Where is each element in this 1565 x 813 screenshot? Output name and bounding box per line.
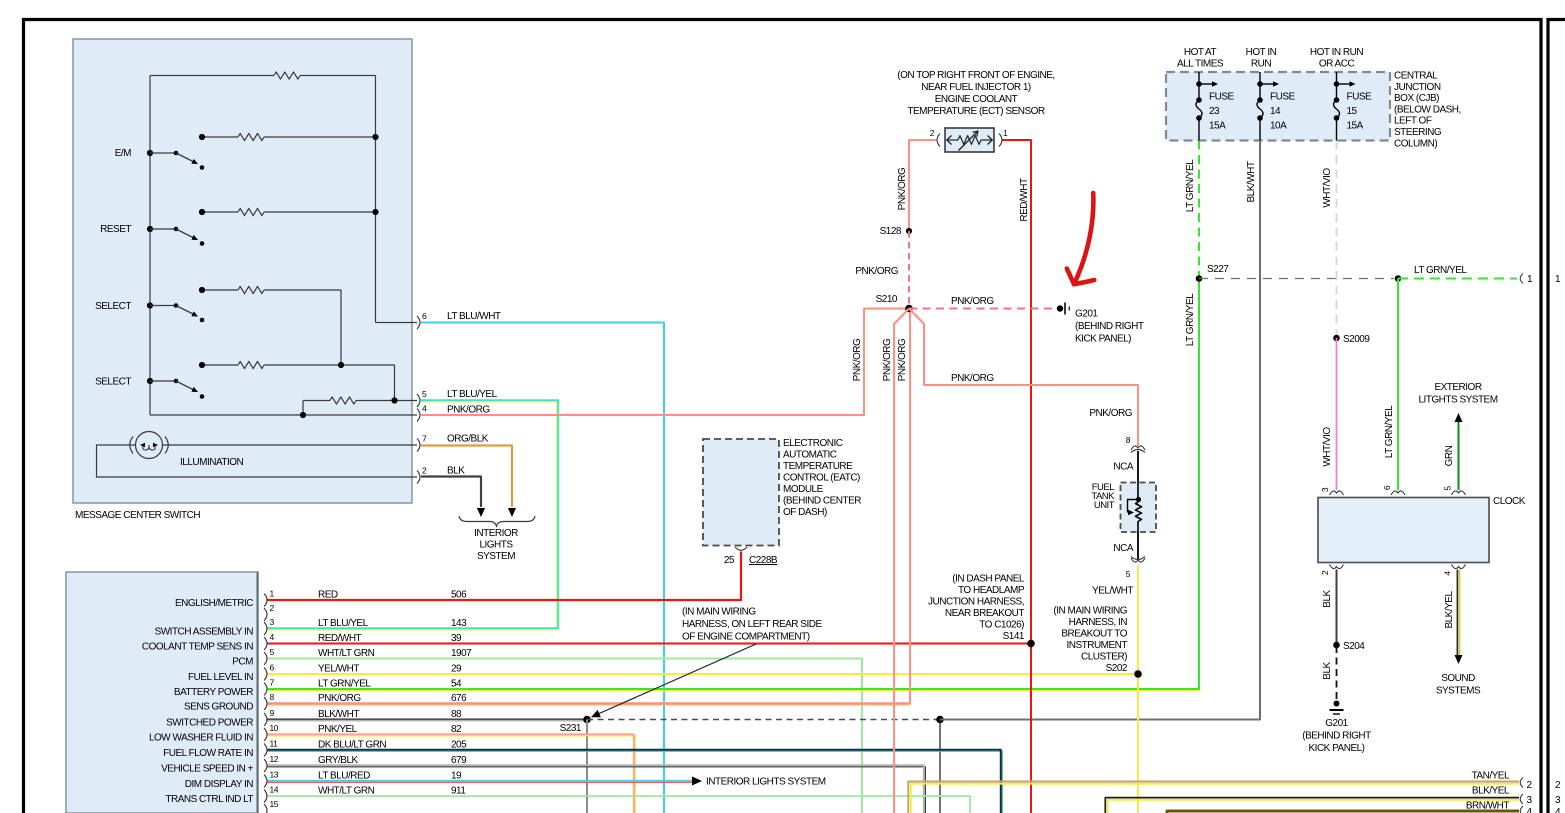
svg-text:PNK/ORG: PNK/ORG xyxy=(951,373,994,384)
svg-text:(BEHIND CENTER: (BEHIND CENTER xyxy=(783,496,861,507)
label PNK/ORG (pin4) xyxy=(447,405,490,416)
svg-text:PNK/ORG: PNK/ORG xyxy=(897,167,908,210)
svg-text:911: 911 xyxy=(451,786,466,797)
label PNK/ORG (left of dashed) xyxy=(855,266,898,277)
wire BLK/YEL clock pin4 to sound systems xyxy=(1455,570,1463,665)
svg-text:RED: RED xyxy=(318,590,338,601)
svg-text:SWITCHED POWER: SWITCHED POWER xyxy=(166,718,253,729)
svg-text:6: 6 xyxy=(270,663,275,673)
label BLK (vertical, lower) xyxy=(1322,661,1333,679)
svg-text:13: 13 xyxy=(270,770,279,780)
svg-text:E/M: E/M xyxy=(115,148,131,159)
wire BLK/WHT junction to fuse 14 xyxy=(940,141,1260,720)
svg-text:LT GRN/YEL: LT GRN/YEL xyxy=(1384,405,1395,458)
svg-text:OF DASH): OF DASH) xyxy=(783,507,827,518)
svg-text:TAN/YEL: TAN/YEL xyxy=(1472,771,1510,782)
label RED/WHT (vertical) xyxy=(1019,178,1030,222)
svg-text:15: 15 xyxy=(1347,106,1358,117)
svg-text:7: 7 xyxy=(270,678,275,688)
label LT GRN/YEL (vertical, lower) xyxy=(1185,293,1196,346)
svg-text:1: 1 xyxy=(270,589,275,599)
label LT GRN/YEL (horizontal) xyxy=(1414,265,1467,276)
label EATC module xyxy=(783,438,861,518)
pin 2 clock xyxy=(1320,565,1344,576)
label pin 4 adjacent sheet xyxy=(1555,807,1561,813)
svg-text:7: 7 xyxy=(422,434,427,444)
svg-text:BLK/WHT: BLK/WHT xyxy=(1246,161,1257,202)
svg-text:3: 3 xyxy=(1320,487,1330,492)
wire YEL/WHT 29 pin6 to S202 xyxy=(268,673,1139,675)
fuse 14 (10A) xyxy=(1257,72,1296,141)
svg-text:G201: G201 xyxy=(1075,309,1098,320)
svg-text:COOLANT TEMP SENS IN: COOLANT TEMP SENS IN xyxy=(142,642,253,653)
splice S204 xyxy=(1333,641,1365,652)
svg-text:DIM DISPLAY IN: DIM DISPLAY IN xyxy=(185,779,253,790)
pin 13 connector xyxy=(264,770,279,788)
svg-text:39: 39 xyxy=(451,633,462,644)
wire PNK/ORG S210 branch right to fuel tank xyxy=(909,309,1138,447)
label BLK (vertical, upper) xyxy=(1322,589,1333,607)
svg-text:ENGLISH/METRIC: ENGLISH/METRIC xyxy=(175,598,253,609)
pin 9 connector xyxy=(264,708,275,726)
label ECT sensor xyxy=(897,70,1054,117)
label WHT/VIO (vertical, upper) xyxy=(1322,168,1333,208)
svg-text:S227: S227 xyxy=(1207,264,1229,275)
label annotation S141 xyxy=(928,574,1025,643)
svg-text:HARNESS, ON LEFT REAR SIDE: HARNESS, ON LEFT REAR SIDE xyxy=(682,619,822,630)
wire WHT/VIO S2009 to clock pin3 xyxy=(1336,338,1338,490)
brace interior lights system xyxy=(459,516,535,526)
svg-text:S2009: S2009 xyxy=(1343,334,1370,345)
svg-text:19: 19 xyxy=(451,771,462,782)
label NCA (top) xyxy=(1113,462,1133,473)
svg-text:25: 25 xyxy=(724,555,735,566)
svg-text:S204: S204 xyxy=(1343,641,1365,652)
pin 1 ECT sensor xyxy=(999,128,1008,147)
wire NCA unit to pin5 xyxy=(1137,532,1139,559)
pin 10 connector xyxy=(264,723,279,741)
svg-text:RESET: RESET xyxy=(100,224,131,235)
svg-text:506: 506 xyxy=(451,590,467,601)
svg-text:SYSTEMS: SYSTEMS xyxy=(1436,686,1481,697)
wire WHT/LT GRN 1907 pin5 xyxy=(268,659,863,813)
label MESSAGE CENTER SWITCH xyxy=(75,510,200,521)
svg-text:(IN DASH PANEL: (IN DASH PANEL xyxy=(952,574,1025,585)
svg-text:WHT/LT GRN: WHT/LT GRN xyxy=(318,786,375,797)
svg-text:54: 54 xyxy=(451,679,462,690)
pin 12 connector xyxy=(264,754,279,772)
svg-text:LT GRN/YEL: LT GRN/YEL xyxy=(318,679,371,690)
pin 2 message center switch xyxy=(417,466,427,484)
label PNK/ORG (fan mid) xyxy=(897,338,908,381)
label ORG/BLK xyxy=(447,434,489,445)
label SELECT-2 xyxy=(95,377,131,388)
svg-text:NEAR BREAKOUT: NEAR BREAKOUT xyxy=(945,608,1024,619)
label TAN/YEL xyxy=(1472,771,1510,782)
label BLK/WHT (vertical) xyxy=(1246,161,1257,202)
wire PNK/YEL 82 pin10 xyxy=(268,734,636,813)
wire RED/WHT ECT pin1 riser xyxy=(1003,140,1032,813)
pin 1 connector xyxy=(264,589,275,607)
pin 2 connector xyxy=(264,603,275,621)
svg-text:(BEHIND RIGHT: (BEHIND RIGHT xyxy=(1302,731,1371,742)
svg-text:4: 4 xyxy=(270,632,275,642)
svg-text:FUSE: FUSE xyxy=(1209,92,1235,103)
leader arrow to S231 xyxy=(591,644,756,717)
svg-text:LT GRN/YEL: LT GRN/YEL xyxy=(1414,265,1467,276)
wire lamp right to pin 7 xyxy=(163,444,418,446)
label BLK/YEL (vertical) xyxy=(1444,591,1455,629)
arrow to interior lights system xyxy=(692,777,702,786)
label CENTRAL JUNCTION BOX xyxy=(1394,71,1461,150)
label PNK/ORG (above pin 8) xyxy=(1089,408,1132,419)
svg-text:VEHICLE SPEED IN +: VEHICLE SPEED IN + xyxy=(161,764,254,775)
svg-text:INTERIOR LIGHTS SYSTEM: INTERIOR LIGHTS SYSTEM xyxy=(706,777,826,788)
svg-text:AUTOMATIC: AUTOMATIC xyxy=(783,450,837,461)
svg-text:LT BLU/YEL: LT BLU/YEL xyxy=(447,389,498,400)
wire YEL/WHT fuel tank to S202 and down xyxy=(1137,565,1139,813)
pin 5 connector xyxy=(264,647,275,665)
splice S2009 xyxy=(1333,334,1370,345)
label ILLUMINATION xyxy=(180,457,244,468)
svg-text:12: 12 xyxy=(270,754,279,764)
wire LT GRN/YEL 54 pin7 to S227 riser xyxy=(268,279,1201,691)
svg-text:2: 2 xyxy=(1320,570,1330,575)
svg-text:4: 4 xyxy=(422,404,427,414)
svg-text:LITGHTS SYSTEM: LITGHTS SYSTEM xyxy=(1418,395,1497,406)
wire TAN/YEL xyxy=(908,782,1519,813)
fuel tank unit box xyxy=(1121,483,1157,533)
wire drop from S231 xyxy=(586,720,588,813)
label G201 (lower) xyxy=(1302,718,1371,754)
svg-text:29: 29 xyxy=(451,664,462,675)
wire BLK pin2 xyxy=(421,477,485,518)
svg-text:TRANS CTRL IND LT: TRANS CTRL IND LT xyxy=(165,794,253,805)
svg-text:PNK/YEL: PNK/YEL xyxy=(318,724,358,735)
wire LT GRN/YEL branch to clock pin6 xyxy=(1397,279,1399,491)
wire LT GRN/YEL dashed to sheet edge xyxy=(1398,278,1517,280)
svg-text:WHT/VIO: WHT/VIO xyxy=(1322,427,1333,467)
svg-text:LT BLU/YEL: LT BLU/YEL xyxy=(318,618,369,629)
fuse 23 (15A) xyxy=(1196,72,1235,141)
wire BLK/YEL bottom xyxy=(1105,798,1519,813)
label LT BLU/YEL (pin5) xyxy=(447,389,498,400)
svg-text:15A: 15A xyxy=(1347,121,1364,132)
svg-text:BREAKOUT TO: BREAKOUT TO xyxy=(1061,629,1127,640)
label PNK/ORG (vertical, ECT) xyxy=(897,167,908,210)
svg-text:UNIT: UNIT xyxy=(1094,500,1115,511)
svg-text:SWITCH ASSEMBLY IN: SWITCH ASSEMBLY IN xyxy=(155,627,254,638)
svg-text:14: 14 xyxy=(1270,106,1281,117)
svg-text:CENTRAL: CENTRAL xyxy=(1394,71,1438,82)
pin 6 message center switch xyxy=(417,311,427,329)
svg-text:MODULE: MODULE xyxy=(783,484,824,495)
ground G201 (lower) xyxy=(1330,701,1344,715)
svg-text:JUNCTION HARNESS,: JUNCTION HARNESS, xyxy=(928,597,1024,608)
splice S227 xyxy=(1196,264,1230,282)
svg-text:1: 1 xyxy=(1003,128,1008,138)
svg-text:LOW WASHER FLUID IN: LOW WASHER FLUID IN xyxy=(149,733,253,744)
svg-text:PNK/ORG: PNK/ORG xyxy=(855,266,898,277)
svg-text:HOT IN: HOT IN xyxy=(1246,47,1277,58)
svg-text:MESSAGE CENTER SWITCH: MESSAGE CENTER SWITCH xyxy=(75,510,200,521)
pin 25 connector C228B xyxy=(724,547,778,566)
svg-text:NCA: NCA xyxy=(1113,543,1133,554)
ground G201 (behind right kick panel, at splice) xyxy=(1057,303,1070,315)
svg-text:HOT IN RUN: HOT IN RUN xyxy=(1310,47,1363,58)
wire BLK clock pin2 to S204 xyxy=(1336,570,1338,644)
pin 6 connector xyxy=(264,663,275,681)
splice S141 xyxy=(1027,640,1035,648)
svg-text:HARNESS, IN: HARNESS, IN xyxy=(1069,617,1128,628)
resistor row E/M xyxy=(199,133,379,140)
svg-text:5: 5 xyxy=(422,389,427,399)
svg-text:14: 14 xyxy=(270,785,279,795)
svg-text:2: 2 xyxy=(1555,780,1561,791)
central junction box (CJB) xyxy=(1166,72,1390,141)
wire lamp left to pin 2 xyxy=(97,445,418,477)
svg-text:NEAR FUEL INJECTOR 1): NEAR FUEL INJECTOR 1) xyxy=(921,82,1031,93)
svg-text:BATTERY POWER: BATTERY POWER xyxy=(174,687,253,698)
svg-text:PNK/ORG: PNK/ORG xyxy=(897,338,908,381)
svg-text:ELECTRONIC: ELECTRONIC xyxy=(783,438,843,449)
wire internal right bus xyxy=(376,76,418,323)
wire RED 506 pin1 to C228B xyxy=(268,552,742,600)
label HOT AT ALL TIMES xyxy=(1177,47,1224,70)
svg-text:TO HEADLAMP: TO HEADLAMP xyxy=(958,585,1025,596)
svg-text:S210: S210 xyxy=(876,294,898,305)
svg-text:FUSE: FUSE xyxy=(1270,92,1296,103)
svg-text:1: 1 xyxy=(1555,274,1561,285)
pin 11 connector xyxy=(264,739,278,757)
svg-text:RED/WHT: RED/WHT xyxy=(318,633,362,644)
svg-text:ILLUMINATION: ILLUMINATION xyxy=(180,457,244,468)
svg-text:TEMPERATURE (ECT) SENSOR: TEMPERATURE (ECT) SENSOR xyxy=(907,106,1045,117)
svg-text:(BEHIND RIGHT: (BEHIND RIGHT xyxy=(1075,321,1144,332)
pin 14 connector xyxy=(264,785,279,803)
pin 4 connector xyxy=(264,632,275,650)
wire GRN exterior lights to clock pin5 xyxy=(1455,413,1463,490)
pin 2 ECT sensor xyxy=(930,128,940,147)
label SOUND SYSTEMS xyxy=(1436,673,1481,697)
label HOT IN RUN xyxy=(1246,47,1277,70)
wire PNK/ORG 676 pin8 to S210 xyxy=(268,312,911,705)
svg-text:C228B: C228B xyxy=(749,555,778,566)
thermistor ECT sensor xyxy=(945,128,994,152)
pin 5 message center switch xyxy=(417,389,427,407)
svg-text:G201: G201 xyxy=(1325,718,1348,729)
svg-text:S141: S141 xyxy=(1003,631,1025,642)
splice S231 xyxy=(560,716,591,734)
wire LT GRN/YEL dashed fuse23 to S227 xyxy=(1198,141,1200,277)
svg-text:4: 4 xyxy=(1527,807,1533,813)
wire LT BLU/YEL pin5 to pin3 xyxy=(268,400,559,630)
label HOT IN RUN OR ACC xyxy=(1310,47,1363,70)
label EXTERIOR LITGHTS SYSTEM xyxy=(1418,382,1497,406)
svg-text:8: 8 xyxy=(1126,435,1131,445)
svg-text:LIGHTS: LIGHTS xyxy=(479,540,513,551)
splice S128 xyxy=(880,226,912,237)
svg-text:SOUND: SOUND xyxy=(1441,673,1475,684)
svg-text:SENS GROUND: SENS GROUND xyxy=(184,702,253,713)
wire GRY/BLK 679 pin12 xyxy=(268,765,926,813)
pin 5 fuel tank unit xyxy=(1126,557,1145,580)
svg-text:CLUSTER): CLUSTER) xyxy=(1081,652,1127,663)
svg-text:LEFT OF: LEFT OF xyxy=(1394,116,1432,127)
svg-text:(ON TOP RIGHT FRONT OF ENGINE,: (ON TOP RIGHT FRONT OF ENGINE, xyxy=(897,70,1054,81)
pin 8 fuel tank unit xyxy=(1126,435,1145,453)
svg-text:4: 4 xyxy=(1555,807,1561,813)
svg-text:BLK: BLK xyxy=(1322,661,1333,679)
resistor row pin5 xyxy=(303,397,417,415)
resistor row RESET xyxy=(199,208,379,215)
svg-text:PNK/ORG: PNK/ORG xyxy=(852,338,863,381)
label PNK/ORG (on branch to tank) xyxy=(951,373,994,384)
switch SELECT-2 xyxy=(147,378,204,399)
svg-text:BRN/WHT: BRN/WHT xyxy=(1466,801,1510,812)
pin 4 at sheet edge xyxy=(1520,806,1532,813)
svg-text:(IN MAIN WIRING: (IN MAIN WIRING xyxy=(1053,606,1127,617)
wire PNK/ORG S210 branch left-down xyxy=(894,309,909,813)
svg-text:2: 2 xyxy=(270,603,275,613)
svg-text:6: 6 xyxy=(1382,485,1392,490)
svg-text:ENGINE COOLANT: ENGINE COOLANT xyxy=(935,94,1018,105)
svg-text:3: 3 xyxy=(1555,795,1561,806)
svg-text:4: 4 xyxy=(1443,571,1453,576)
pin 8 connector xyxy=(264,692,275,710)
switch E/M xyxy=(147,150,204,170)
pin 2 at sheet edge xyxy=(1520,778,1532,792)
svg-text:8: 8 xyxy=(270,692,275,702)
svg-text:3: 3 xyxy=(1527,795,1533,806)
svg-text:LT BLU/WHT: LT BLU/WHT xyxy=(447,311,501,322)
svg-text:LT BLU/RED: LT BLU/RED xyxy=(318,771,370,782)
fuse 15 (15A) xyxy=(1334,72,1373,141)
wire LT BLU/RED 19 pin13 xyxy=(268,781,693,783)
svg-text:5: 5 xyxy=(270,647,275,657)
svg-text:15: 15 xyxy=(270,799,279,809)
svg-text:YEL/WHT: YEL/WHT xyxy=(318,664,359,675)
node branch LT GRN/YEL xyxy=(1395,275,1402,282)
svg-text:5: 5 xyxy=(1126,569,1131,579)
svg-text:(BELOW DASH,: (BELOW DASH, xyxy=(1394,104,1461,115)
wire DK BLU/LT GRN 205 pin11 xyxy=(268,750,1003,813)
pin 3 connector xyxy=(264,617,275,635)
label SELECT-1 xyxy=(95,301,131,312)
svg-text:CLOCK: CLOCK xyxy=(1493,496,1526,507)
wire ORG/BLK pin7 xyxy=(421,446,516,518)
svg-text:FUSE: FUSE xyxy=(1347,92,1373,103)
svg-text:1: 1 xyxy=(1527,274,1533,285)
svg-text:FUEL LEVEL IN: FUEL LEVEL IN xyxy=(188,672,253,683)
svg-text:INSTRUMENT: INSTRUMENT xyxy=(1066,640,1127,651)
label E/M xyxy=(115,148,131,159)
svg-text:SYSTEM: SYSTEM xyxy=(477,551,515,562)
resistor row SELECT-1 xyxy=(199,286,341,365)
annotation red arrow (hand drawn) xyxy=(1067,193,1095,284)
label LT GRN/YEL (vertical, dashed section) xyxy=(1185,159,1196,212)
label LT GRN/YEL (vertical, clock) xyxy=(1384,405,1395,458)
pin 15 connector xyxy=(264,799,279,813)
svg-text:JUNCTION: JUNCTION xyxy=(1394,82,1441,93)
label CLOCK xyxy=(1493,496,1526,507)
connector box (instrument cluster) xyxy=(66,572,258,813)
splice S202 xyxy=(1134,670,1142,678)
svg-text:S202: S202 xyxy=(1106,663,1128,674)
svg-text:1907: 1907 xyxy=(451,648,472,659)
wire internal bottom to pin 4 xyxy=(150,412,417,418)
svg-text:PCM: PCM xyxy=(232,657,253,668)
label BRN/WHT xyxy=(1466,801,1510,812)
label PNK/ORG (fan left) xyxy=(882,338,893,381)
lamp ILLUMINATION xyxy=(130,432,169,459)
svg-text:10A: 10A xyxy=(1270,121,1287,132)
page border (adjacent sheet) xyxy=(1547,18,1565,813)
svg-text:KICK PANEL): KICK PANEL) xyxy=(1075,334,1131,345)
label BLK (pin2) xyxy=(447,466,465,477)
svg-text:OF ENGINE COMPARTMENT): OF ENGINE COMPARTMENT) xyxy=(682,632,810,643)
wire drop from BLK/WHT junction xyxy=(939,720,941,813)
label GRN (vertical) xyxy=(1444,445,1455,466)
wire splice link dashed S227 to branch xyxy=(1199,278,1394,280)
wire WHT/VIO dashed fuse15 to S2009 xyxy=(1336,141,1338,337)
wire BLK/WHT 88 pin9 to S231 xyxy=(268,719,588,721)
label pin 3 adjacent sheet xyxy=(1555,795,1561,806)
svg-text:WHT/LT GRN: WHT/LT GRN xyxy=(318,648,375,659)
svg-text:ORG/BLK: ORG/BLK xyxy=(447,434,489,445)
svg-text:INTERIOR: INTERIOR xyxy=(474,528,518,539)
label PNK/ORG (pin4 riser) xyxy=(852,338,863,381)
svg-text:YEL/WHT: YEL/WHT xyxy=(1092,586,1133,597)
wire WHT/LT GRN 911 pin14 xyxy=(268,796,971,813)
svg-text:OR ACC: OR ACC xyxy=(1319,59,1355,70)
variable resistor fuel sender xyxy=(1128,483,1142,533)
svg-text:COLUMN): COLUMN) xyxy=(1394,138,1437,149)
svg-text:2: 2 xyxy=(422,466,427,476)
svg-text:GRN: GRN xyxy=(1444,445,1455,466)
svg-text:CONTROL (EATC): CONTROL (EATC) xyxy=(783,473,860,484)
label LT BLU/WHT xyxy=(447,311,501,322)
svg-text:BLK/YEL: BLK/YEL xyxy=(1472,786,1510,797)
label annotation main wiring harness xyxy=(682,607,822,643)
pin 4 message center switch xyxy=(417,404,427,422)
svg-text:6: 6 xyxy=(422,311,427,321)
wire PNK/ORG dashed S210 to G201 xyxy=(909,308,1055,310)
svg-text:82: 82 xyxy=(451,724,462,735)
svg-text:PNK/ORG: PNK/ORG xyxy=(1089,408,1132,419)
labels connector functions xyxy=(142,598,254,805)
wire PNK/ORG pin4 to S210 xyxy=(421,309,906,416)
wire NCA pin8 to unit xyxy=(1137,451,1139,483)
label INTERIOR LIGHTS SYSTEM (bottom of switch) xyxy=(474,528,518,562)
svg-text:BOX (CJB): BOX (CJB) xyxy=(1394,93,1439,104)
label annotation S202 xyxy=(1053,606,1128,675)
clock box xyxy=(1318,498,1489,563)
pin 5 clock xyxy=(1443,486,1466,495)
svg-text:11: 11 xyxy=(270,739,279,749)
svg-text:RUN: RUN xyxy=(1251,59,1271,70)
svg-text:WHT/VIO: WHT/VIO xyxy=(1322,168,1333,208)
svg-text:STEERING: STEERING xyxy=(1394,127,1442,138)
svg-text:143: 143 xyxy=(451,618,467,629)
label FUEL TANK UNIT xyxy=(1091,482,1115,511)
wire internal left bus xyxy=(149,76,151,416)
label RESET xyxy=(100,224,131,235)
svg-text:SELECT: SELECT xyxy=(95,301,131,312)
svg-text:ALL TIMES: ALL TIMES xyxy=(1177,59,1224,70)
svg-text:BLK: BLK xyxy=(447,466,465,477)
resistor row SELECT-2 xyxy=(199,361,395,400)
